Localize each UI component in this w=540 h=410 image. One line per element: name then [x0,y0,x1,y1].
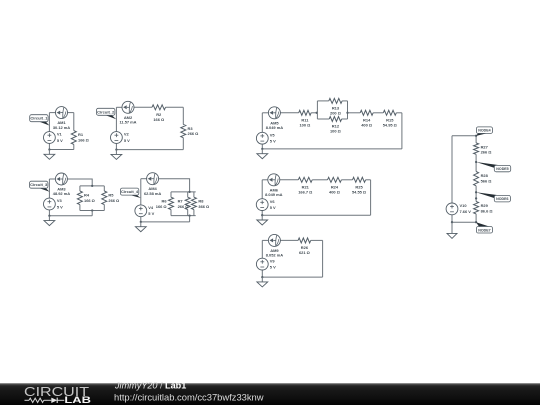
ground circuit3 [44,216,55,226]
svg-text:166 Ω: 166 Ω [156,204,167,209]
voltage source V5 5 V [256,132,276,144]
svg-text:R1: R1 [78,132,84,137]
wire circuit6 left riser [261,180,263,199]
junction circuit3 bottom bar [91,209,93,211]
svg-text:Circuit_1: Circuit_1 [30,116,48,121]
svg-text:5 V: 5 V [124,138,130,143]
resistor R15 54.95 Ohm [383,110,397,127]
wire divider left rail [451,136,453,203]
node NODE7 junction [475,221,477,223]
resistor R7 266 Ohm [178,197,191,209]
svg-text:R27: R27 [481,144,489,149]
flag Circuit_2 [97,108,117,119]
flag NODE7 [476,222,492,233]
voltage source V3 5 V [44,198,64,210]
svg-text:R4: R4 [84,192,90,197]
flag Circuit_1 [30,115,50,126]
svg-text:V4: V4 [148,205,154,210]
wire circuit5 V5 bottom lead [261,144,263,149]
svg-text:R8: R8 [198,199,204,204]
svg-text:5 V: 5 V [270,205,276,210]
ammeter AM9 8.052 mA [266,234,283,257]
svg-text:100 Ω: 100 Ω [330,129,341,134]
flag Circuit_3 [30,181,50,192]
wire circuit2 V2 bottom lead [115,143,117,149]
junction circuit4 bottom bar [188,214,190,216]
ammeter AM3 48.92 mA [53,173,70,196]
svg-text:LAB: LAB [64,395,91,405]
svg-text:8.049 mA: 8.049 mA [266,125,283,130]
wire circuit6 R24 to R25 [341,179,352,181]
flag Circuit_4 [120,188,140,198]
wire circuit5 R11 to block [311,112,317,114]
svg-text:R29: R29 [481,203,489,208]
wire circuit3 parallel bottom bar [80,210,104,212]
node NODE4 junction [475,135,477,137]
svg-text:266 Ω: 266 Ω [178,204,189,209]
resistor R21 166.7 Ohm [298,177,312,194]
junction divider ground node [451,221,453,223]
svg-text:5 V: 5 V [270,139,276,144]
ammeter AM1 30.12 mA [53,107,70,130]
wire divider bottom run [452,221,476,223]
svg-text:166 Ω: 166 Ω [78,137,89,142]
wire circuit9 right riser [322,240,324,277]
ground circuit5 [257,149,268,159]
wire circuit1 R1 bottom lead [73,144,75,149]
node NODE5 junction [475,161,477,163]
wire circuit3 bottom stem [91,211,93,216]
svg-text:V2: V2 [124,132,130,137]
logo diode symbol [51,398,57,403]
resistor R14 400 Ohm [360,110,373,127]
wire circuit4 R7 leads [187,192,189,197]
svg-text:Circuit_3: Circuit_3 [30,182,48,187]
junction circuit6 ground node [261,214,263,216]
voltage source V1 5 V [44,132,64,144]
ammeter AM2 11.57 mA [119,101,136,124]
resistor R8 366 Ohm [191,197,209,209]
wire circuit3 bottom run [49,215,92,217]
svg-text:366 Ω: 366 Ω [198,204,209,209]
wire divider R27 leads [475,136,477,143]
voltage source V4 5 V [135,205,155,217]
resistor R26 621 Ohm [298,238,311,255]
wire circuit6 right riser [370,180,372,215]
wire circuit5 bottom run [262,148,402,150]
svg-text:400 Ω: 400 Ω [329,189,340,194]
resistor R4 166 Ohm [77,191,94,205]
resistor R29 86.6 Ohm [474,202,493,214]
wire circuit4 top run [141,178,147,180]
ground circuit1 [44,150,55,160]
wire circuit1 R1 top lead [73,113,75,131]
svg-text:621 Ω: 621 Ω [299,250,310,255]
ammeter AM4 62.58 mA [144,173,161,196]
logo wire out [57,399,64,401]
resistor R12 100 Ohm [329,117,341,134]
wire circuit1 top right segment [68,112,74,114]
wire circuit9 top run [262,239,268,241]
voltage source V10 7.66 V [446,203,471,215]
logo wire mid [44,399,52,401]
ground circuit9 [257,277,268,287]
svg-text:62.58 mA: 62.58 mA [144,191,161,196]
voltage source V6 5 V [256,199,276,211]
resistor R13 200 Ohm [329,98,342,115]
svg-text:48.92 mA: 48.92 mA [53,191,70,196]
svg-text:7.66 V: 7.66 V [460,209,472,214]
wire circuit5 R14 to R15 [373,112,383,114]
svg-text:166 Ω: 166 Ω [84,198,95,203]
svg-text:V3: V3 [57,198,63,203]
svg-text:11.57 mA: 11.57 mA [119,120,136,125]
wire circuit9 bottom run [262,276,322,278]
wire circuit6 V6 bottom lead [261,210,263,215]
svg-text:100 Ω: 100 Ω [299,122,310,127]
svg-text:NODE6: NODE6 [496,197,508,201]
flag NODE4 [476,127,492,136]
resistor R11 100 Ohm [299,110,311,127]
svg-text:5 V: 5 V [57,138,63,143]
ground circuit2 [111,150,122,160]
wire circuit3 parallel top bar [80,185,104,187]
ammeter AM5 8.049 mA [266,107,283,130]
svg-text:266 Ω: 266 Ω [188,131,199,136]
resistor R6 166 Ohm [156,197,174,209]
wire circuit3 left riser [48,179,50,198]
wire circuit3 V3 bottom lead [48,210,50,216]
ground circuit4 [135,222,146,232]
wire circuit4 V4 bottom lead [140,217,142,222]
wire circuit5 ammeter to R11 [280,112,298,114]
svg-text:Circuit_4: Circuit_4 [121,189,139,194]
resistor R27 266 Ohm [474,143,492,155]
svg-text:R5: R5 [108,192,114,197]
svg-text:86.6 Ω: 86.6 Ω [481,208,493,213]
svg-text:8.052 mA: 8.052 mA [266,253,283,258]
wire circuit5 R13 leads [317,100,328,102]
svg-text:V9: V9 [270,258,276,263]
svg-text:266 Ω: 266 Ω [108,198,119,203]
wire divider R28 leads [475,162,477,172]
svg-text:566 Ω: 566 Ω [481,178,492,183]
svg-text:5 V: 5 V [148,211,154,216]
wire circuit4 R8 leads [193,192,195,197]
wire circuit4 parallel bottom bar [171,215,196,217]
resistor R1 166 Ohm [71,131,89,145]
junction circuit3 ground node [48,215,50,217]
logo wire lead-in [25,399,30,401]
wire circuit5 R15 to right rail [396,112,402,114]
svg-text:5 V: 5 V [270,264,276,269]
wire circuit1 V1 bottom lead [48,143,50,149]
svg-text:166.7 Ω: 166.7 Ω [298,189,312,194]
junction circuit4 ground node [140,221,142,223]
resistor R25 54.55 Ohm [352,177,366,194]
resistor R2 166 Ohm [152,105,166,122]
wire circuit1 left riser [48,113,50,132]
wire circuit2 R3 bottom lead [182,138,184,150]
svg-text:400 Ω: 400 Ω [361,122,372,127]
wire circuit5 top run [262,112,268,114]
junction circuit2 ground node [115,148,117,150]
wire circuit5 block left rail [316,101,318,119]
wire circuit3 top run [49,178,55,180]
svg-text:R28: R28 [481,173,489,178]
svg-text:R6: R6 [162,199,168,204]
svg-text:54.55 Ω: 54.55 Ω [352,189,366,194]
svg-text:V5: V5 [270,132,276,137]
svg-text:V1: V1 [57,132,63,137]
wire circuit1 top run [49,112,55,114]
svg-text:R3: R3 [188,126,194,131]
voltage source V9 5 V [256,258,276,270]
svg-text:NODE4: NODE4 [478,129,490,133]
wire circuit2 ammeter to R2 [134,106,152,108]
wire circuit4 bottom stem [189,216,191,222]
wire circuit2 R2 to right rail [166,106,184,108]
svg-text:R7: R7 [178,199,184,204]
svg-text:V10: V10 [460,203,468,208]
voltage source V2 5 V [111,132,131,144]
svg-text:Circuit_2: Circuit_2 [97,109,115,114]
svg-text:266 Ω: 266 Ω [481,150,492,155]
junction circuit5 ground node [261,148,263,150]
wire circuit4 bottom run [141,221,190,223]
svg-text:NODE7: NODE7 [478,228,490,232]
wire circuit5 R12 leads [317,118,329,120]
ammeter AM6 8.049 mA [265,174,282,197]
svg-text:http://circuitlab.com/cc37bwfz: http://circuitlab.com/cc37bwfz33knw [114,391,264,402]
junction circuit5 block right [346,112,348,114]
ground circuit6 [257,215,268,225]
resistor R24 400 Ohm [328,177,342,194]
junction circuit1 ground node [48,148,50,150]
wire divider V10 bottom lead [451,215,453,222]
wire circuit9 ammeter to R26 [280,239,298,241]
wire circuit5 block right rail [347,101,349,119]
wire circuit6 R25 to right rail [366,179,371,181]
wire circuit2 R3 top lead [182,107,184,124]
wire circuit6 R21 to R24 [312,179,327,181]
wire circuit2 bottom run [116,149,183,151]
junction circuit3 top bar [91,185,93,187]
svg-text:V6: V6 [270,199,276,204]
flag NODE5 [476,162,511,172]
junction circuit5 block left [316,112,318,114]
svg-text:54.95 Ω: 54.95 Ω [383,122,397,127]
wire circuit9 left riser [261,240,263,258]
resistor R3 266 Ohm [181,124,199,137]
wire circuit4 parallel top bar [171,191,196,193]
wire circuit2 top run to ammeter [116,106,122,108]
ground divider [447,222,457,238]
wire circuit2 left riser [115,107,117,131]
wire divider R29 leads [475,192,477,201]
junction circuit9 ground node [261,276,263,278]
wire circuit1 bottom run [49,149,73,151]
wire circuit3 R5 leads [103,186,105,191]
wire circuit5 left riser [261,113,263,133]
wire circuit5 block to R14 [348,112,361,114]
wire circuit5 right riser [401,113,403,149]
svg-text:8.049 mA: 8.049 mA [265,192,282,197]
wire circuit6 top run [262,179,268,181]
wire circuit6 ammeter to R21 [280,179,299,181]
svg-text:200 Ω: 200 Ω [330,110,341,115]
wire circuit4 left riser [140,179,142,205]
logo resistor symbol [29,398,44,402]
wire circuit4 ammeter to corner [159,179,190,192]
svg-text:30.12 mA: 30.12 mA [53,125,70,130]
resistor R5 266 Ohm [102,191,119,205]
svg-text:5 V: 5 V [57,204,63,209]
wire circuit4 R6 leads [170,192,172,197]
resistor R28 566 Ohm [474,172,492,186]
flag NODE6 [476,192,510,202]
junction divider R29 top terminal [475,197,477,199]
wire circuit9 R26 to right rail [311,239,323,241]
wire circuit9 V9 bottom lead [261,270,263,277]
wire circuit6 bottom run [262,214,370,216]
node NODE6 junction [475,191,477,193]
svg-text:166 Ω: 166 Ω [153,117,164,122]
svg-text:JimmyY20 / Lab1: JimmyY20 / Lab1 [114,381,186,391]
svg-text:NODE5: NODE5 [496,167,508,171]
junction circuit4 top bar [188,191,190,193]
wire circuit3 ammeter to corner [67,179,92,186]
wire divider top run [452,135,476,137]
wire circuit3 R4 leads [79,186,81,191]
